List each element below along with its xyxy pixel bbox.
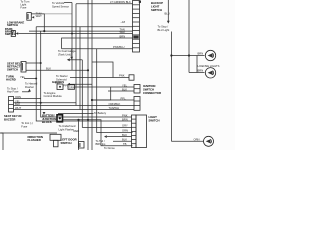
light switch body (136, 115, 147, 148)
svg-text:Fuse: Fuse (21, 124, 27, 128)
svg-text:WHT: WHT (36, 14, 42, 18)
label To Engine Control Module (44, 91, 63, 98)
label To Stop BLU Light (158, 25, 170, 32)
seat key-in buzzer label (4, 114, 21, 121)
arrow y136.6 (104, 135, 107, 138)
svg-text:Light Flasher: Light Flasher (59, 127, 75, 131)
license lamp 1 (205, 50, 215, 60)
svg-text:To Vehicle: To Vehicle (52, 1, 65, 5)
backup light switch label (151, 1, 163, 12)
label To Inst Fuse (21, 121, 32, 128)
svg-text:WHT: WHT (120, 30, 126, 34)
wire y98.5 (14, 98, 41, 100)
svg-text:LICENSE LIGHTS: LICENSE LIGHTS (198, 64, 220, 68)
wire y77.5 PNK to connector cell (70, 77, 129, 79)
wire y84.2 (70, 83, 92, 85)
ignition connector label (143, 84, 161, 95)
label To Stop Haz Fuse (7, 86, 19, 93)
to inst fuse arrow (43, 112, 46, 115)
label: To Turn Light Fuse (20, 0, 29, 10)
inline connector cell (129, 75, 134, 80)
wire y3.8 to bulkhead (76, 3, 133, 5)
svg-text:PPL: PPL (121, 96, 127, 100)
svg-text:Speed Sensor: Speed Sensor (52, 5, 69, 9)
wire y48.7 PNK BLU to bulkhead (62, 48, 133, 50)
svg-text:BLU: BLU (165, 12, 170, 16)
fuse box PPL (57, 84, 63, 90)
wire turn signal y15 (31, 14, 44, 31)
svg-text:BLK: BLK (122, 87, 127, 91)
node x88 y70.3 (87, 69, 89, 71)
wire vertical x72 (71, 3, 73, 71)
svg-text:–18: –18 (121, 20, 126, 24)
svg-text:ORN/BLK: ORN/BLK (109, 102, 121, 106)
wire y105.5 ORN BLK (14, 105, 135, 107)
fuel gauge stub (71, 49, 73, 57)
wire vertical x78.5 (78, 120, 80, 150)
label TURN HAZRD (6, 75, 16, 82)
node x40.7 y102.8 (40, 102, 42, 104)
svg-text:TAN/WH: TAN/WH (109, 106, 119, 110)
node x92 y100 (91, 99, 93, 101)
svg-text:GRY: GRY (122, 124, 128, 128)
dome lamp (204, 136, 214, 146)
light switch pin ladder (132, 115, 137, 148)
wire y91 BLK (108, 90, 134, 92)
svg-text:Control Module: Control Module (44, 94, 63, 98)
wire vertical x76 (75, 4, 77, 106)
arrow dome feed (67, 58, 70, 61)
ignition switch connector cells A (134, 85, 140, 94)
wire seat belt y63 (26, 62, 41, 64)
node x189 y55.5 (188, 54, 190, 56)
wire seat belt y70.3 BLK (26, 69, 88, 71)
wire jog y100 (92, 87, 111, 100)
wire y72.5 license (189, 72, 205, 74)
svg-text:RED: RED (74, 129, 80, 133)
node x72 y33.8 (71, 33, 73, 35)
wire y141.3 (113, 140, 132, 142)
wire y26.7 (36, 26, 132, 28)
wire vertical x96.7 (97, 49, 133, 133)
left fuse panel connector (9, 97, 14, 113)
fuel gauge arrow (70, 57, 73, 60)
node x40.7 y63 (40, 62, 42, 64)
seat belt retract switch component (21, 62, 26, 73)
left door switch component (79, 142, 85, 149)
svg-text:To Starter: To Starter (56, 74, 68, 78)
wire vertical x92 (91, 0, 93, 150)
label To Hazard Flasher (25, 82, 38, 90)
node x36.2 y78.5 (35, 78, 37, 80)
wire y127.5 GRY (82, 127, 131, 129)
svg-text:Flasher: Flasher (25, 85, 34, 89)
bulkhead pin blob (133, 36, 138, 39)
wire y78.5 (24, 78, 36, 80)
svg-text:FLASHER: FLASHER (28, 138, 41, 142)
bulkhead connector ladder (133, 1, 140, 53)
svg-text:GAUGES: GAUGES (52, 80, 64, 84)
svg-text:TB: TB (123, 142, 127, 146)
long vertical x171.4 (170, 32, 172, 142)
wire y141.3 dome (171, 140, 203, 142)
svg-text:BLK: BLK (122, 133, 127, 137)
node x88 y119.8 (87, 119, 89, 121)
wire y55.5 license (171, 55, 204, 57)
svg-text:BRN: BRN (198, 52, 204, 56)
wire vertical x36.2 BRN (36, 27, 131, 121)
backup switch wire x168.3 (167, 0, 169, 21)
svg-text:BLU Light: BLU Light (158, 28, 170, 32)
svg-text:YEL: YEL (122, 83, 128, 87)
convenience center box (0, 133, 3, 150)
node x40.7 y31.1 (43, 30, 45, 32)
hazard arrow (22, 91, 30, 93)
wire y113.4 (58, 112, 94, 114)
label To Fuel Gauge Tank Unit (58, 49, 76, 56)
node x78.5 y119.8 (77, 119, 79, 121)
long vertical x189 (188, 0, 190, 73)
battery junction block label (42, 114, 56, 125)
svg-text:(Tank Unit): (Tank Unit) (58, 52, 71, 56)
label To Starter Solenoid (56, 74, 68, 81)
arrow BLK (67, 83, 70, 86)
backup arrow (167, 21, 170, 24)
wire y109.5 TAN WH (14, 109, 135, 111)
park brake switch label (5, 27, 16, 36)
svg-text:ORN BLK: ORN BLK (119, 0, 131, 4)
wire junction block y119.8 (63, 120, 133, 146)
wire vertical x40.7 PNK (41, 31, 132, 117)
svg-text:BRN: BRN (120, 34, 126, 38)
svg-text:CONNECTOR: CONNECTOR (143, 91, 161, 95)
label To Vehicle Speed Sensor (52, 1, 69, 9)
svg-text:SWITCH: SWITCH (151, 8, 162, 12)
svg-text:HAZRD: HAZRD (6, 78, 16, 82)
label To Dome (104, 146, 115, 150)
svg-text:ORN: ORN (194, 137, 200, 141)
direction flasher component (50, 134, 61, 147)
svg-text:To Engine: To Engine (44, 91, 56, 95)
license lamp 2 (205, 68, 215, 78)
svg-text:Haz Fuse: Haz Fuse (7, 90, 19, 94)
wire y38 jog (62, 38, 133, 49)
wire y14.9 faint (44, 13, 72, 15)
seat belt retract switch label (7, 62, 22, 72)
wire vertical x88 (87, 0, 89, 150)
wire y87 to ignition connector (75, 86, 135, 88)
wire y31.1 to bulkhead (29, 30, 133, 32)
svg-text:PNK: PNK (119, 74, 125, 78)
label To Underhood Light Flasher (59, 124, 76, 131)
wire y136.6 (107, 136, 132, 138)
svg-text:SWITCH: SWITCH (149, 118, 160, 122)
low brake switch component (27, 13, 34, 21)
svg-text:SWITCH: SWITCH (5, 32, 16, 36)
fuse box GRN (68, 85, 75, 90)
label TAN WHT (36, 11, 42, 18)
park brake switch component (11, 31, 18, 37)
wire bracket x197 (196, 56, 198, 73)
label LOW BRAKE SWITCH (7, 21, 24, 28)
svg-text:BLK: BLK (46, 67, 51, 71)
wire y102.8 (14, 102, 77, 104)
svg-text:ORN: ORN (122, 129, 128, 133)
direction flasher label (28, 135, 43, 142)
wire y33.8 park brake to bulkhead (18, 33, 132, 35)
svg-text:GRN: GRN (69, 85, 75, 89)
svg-text:SWITCH: SWITCH (61, 141, 72, 145)
light switch label (149, 115, 160, 122)
wire arrow y59.8 (70, 59, 83, 61)
wire vertical x83 (81, 60, 83, 128)
svg-text:To Battery: To Battery (94, 111, 107, 115)
svg-text:BRN lps: BRN lps (96, 142, 107, 146)
node x171.4 y55.5 (170, 54, 172, 56)
svg-text:BRN: BRN (122, 117, 128, 121)
svg-text:To Dome: To Dome (104, 146, 115, 150)
svg-text:PNK/BLU: PNK/BLU (113, 45, 125, 49)
svg-text:SWITCH: SWITCH (7, 68, 18, 72)
wire speed sensor y2.5 (64, 2, 72, 4)
svg-text:PNK: PNK (122, 113, 128, 117)
battery junction block (57, 115, 63, 122)
left door switch label (61, 138, 77, 145)
bulkhead top pin (139, 1, 141, 3)
wire vertical x80 (79, 27, 81, 110)
wire jog y62 (92, 62, 113, 78)
svg-text:BUZZER: BUZZER (4, 117, 15, 121)
svg-text:Fuse: Fuse (20, 6, 26, 10)
label To Tail (96, 139, 107, 146)
svg-text:BRN: BRN (198, 69, 204, 73)
ignition switch connector cells B (134, 97, 140, 111)
